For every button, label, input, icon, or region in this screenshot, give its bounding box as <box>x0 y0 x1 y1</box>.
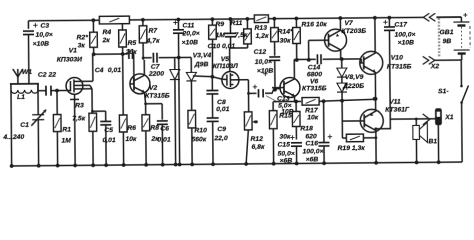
diode V8 <box>340 57 344 61</box>
resistor R7 <box>142 20 144 26</box>
svg-text:×10В: ×10В <box>398 39 415 46</box>
svg-text:1М: 1М <box>61 137 71 144</box>
wire V5 drain <box>233 79 248 81</box>
svg-text:КТ203Б: КТ203Б <box>341 28 366 35</box>
svg-text:КП103Л: КП103Л <box>213 63 238 70</box>
svg-text:×10В: ×10В <box>33 41 50 48</box>
wire V5 source node <box>230 47 248 49</box>
transistor V2 <box>130 74 150 94</box>
svg-text:C2 22: C2 22 <box>38 72 56 79</box>
resistor R5 <box>121 24 123 30</box>
wire V1 drain <box>92 54 94 81</box>
svg-text:R5: R5 <box>128 40 137 47</box>
svg-text:V7: V7 <box>344 20 354 27</box>
connector X2 bottom contact <box>423 56 435 64</box>
svg-text:X1: X1 <box>444 114 454 121</box>
resistor R19 <box>342 137 346 139</box>
svg-text:R3: R3 <box>75 102 84 109</box>
svg-text:R4: R4 <box>102 29 111 36</box>
svg-text:22,0: 22,0 <box>213 135 228 142</box>
wire R16 bottom <box>296 43 298 59</box>
diode V3 <box>177 56 181 60</box>
svg-text:V6: V6 <box>310 78 319 85</box>
svg-text:20,0×: 20,0× <box>181 30 199 37</box>
svg-text:C4: C4 <box>95 67 104 74</box>
svg-text:R11: R11 <box>230 20 242 27</box>
capacitor C3 <box>27 21 29 29</box>
capacitor C7 <box>143 57 151 59</box>
wire V11 base <box>342 120 360 122</box>
resistor R10 <box>188 110 196 128</box>
svg-text:1М: 1М <box>215 32 225 39</box>
wire output to jack <box>390 118 435 120</box>
capacitor C12 <box>269 56 280 58</box>
svg-text:10к: 10к <box>307 114 319 121</box>
wire detector node <box>193 76 222 80</box>
svg-text:Д220Б: Д220Б <box>342 83 364 90</box>
svg-text:3к: 3к <box>78 42 86 49</box>
inductor L1 <box>11 90 38 94</box>
wire L1 left leg <box>10 90 13 166</box>
transistor V6 <box>280 77 300 97</box>
svg-text:C17: C17 <box>394 22 408 29</box>
svg-text:2к: 2к <box>102 37 111 44</box>
svg-text:7,5к: 7,5к <box>72 115 86 122</box>
capacitor C17 <box>388 18 390 27</box>
svg-text:R15: R15 <box>279 113 292 120</box>
capacitor C10 <box>229 19 231 33</box>
svg-text:×10В: ×10В <box>182 39 199 46</box>
svg-text:R7: R7 <box>148 28 158 35</box>
svg-text:0,01: 0,01 <box>216 106 230 113</box>
svg-text:КП303И: КП303И <box>57 56 82 63</box>
capacitor C9 <box>207 117 219 119</box>
svg-text:×6В: ×6В <box>280 158 293 165</box>
svg-text:R10: R10 <box>194 127 207 134</box>
resistor R11 <box>246 19 248 29</box>
svg-text:×6В: ×6В <box>306 156 319 163</box>
wire V7 collector <box>340 50 342 59</box>
capacitor C11 <box>177 20 179 30</box>
svg-text:S1-: S1- <box>438 88 449 95</box>
svg-text:6800: 6800 <box>307 71 322 78</box>
svg-text:V2: V2 <box>149 85 158 92</box>
potentiometer R12 <box>244 112 252 130</box>
diode V9 <box>337 83 347 92</box>
capacitor C5 <box>91 110 94 113</box>
capacitor C8 <box>211 77 213 90</box>
wire V6 collector <box>293 59 295 78</box>
svg-text:7,5к: 7,5к <box>234 32 248 39</box>
resistor R13 <box>254 15 268 23</box>
transistor V10 <box>360 51 383 74</box>
svg-text:КТ315Б: КТ315Б <box>302 85 327 92</box>
wire speaker return <box>376 119 391 129</box>
svg-text:100,0×: 100,0× <box>394 31 415 38</box>
svg-text:Д9В: Д9В <box>194 61 209 68</box>
wire V1 case <box>74 94 76 99</box>
resistor R1 <box>55 89 59 93</box>
svg-text:КТ315Б: КТ315Б <box>145 93 170 100</box>
svg-text:4...240: 4...240 <box>2 134 24 141</box>
svg-text:C6: C6 <box>160 126 169 133</box>
wire output node <box>319 99 374 101</box>
svg-text:30к: 30к <box>279 134 291 141</box>
svg-text:9В: 9В <box>443 38 452 45</box>
svg-text:R2*: R2* <box>76 34 88 41</box>
svg-text:C9: C9 <box>217 126 226 133</box>
capacitor C14 <box>316 54 318 64</box>
svg-text:20к: 20к <box>125 49 138 56</box>
switch S1 <box>460 60 462 86</box>
resistor R3 <box>91 89 93 113</box>
capacitor C6 <box>161 104 163 120</box>
capacitor C2 <box>37 84 39 91</box>
wire ground rail right end <box>461 161 462 163</box>
connector X2 dashed link <box>438 18 441 57</box>
wire V7 emitter <box>339 18 341 30</box>
resistor R16 <box>295 18 297 27</box>
resistor R14 <box>273 19 275 28</box>
svg-text:R8: R8 <box>150 125 159 132</box>
svg-text:GB1: GB1 <box>439 29 453 36</box>
svg-text:×10В: ×10В <box>257 68 274 75</box>
resistor R18 <box>294 100 298 104</box>
wire V6 emitter <box>294 96 296 101</box>
diode V4 <box>175 56 191 58</box>
svg-text:100,0×: 100,0× <box>303 148 324 155</box>
svg-text:6,8к: 6,8к <box>251 144 265 151</box>
svg-text:0,01: 0,01 <box>102 137 116 144</box>
svg-text:10к: 10к <box>125 136 137 143</box>
svg-text:10,0×: 10,0× <box>255 59 272 66</box>
svg-text:B1: B1 <box>428 138 437 145</box>
capacitor C15 <box>291 142 302 144</box>
svg-text:V10: V10 <box>391 55 403 62</box>
capacitor C1 variable <box>37 90 39 115</box>
wire top supply rail <box>28 17 423 20</box>
svg-text:R16 10к: R16 10к <box>301 21 327 28</box>
svg-text:0,01: 0,01 <box>157 137 171 144</box>
antenna W1 <box>17 69 19 84</box>
connector X2 top contact <box>423 13 435 21</box>
svg-text:R6: R6 <box>127 125 136 132</box>
transistor V11 <box>360 109 383 132</box>
svg-text:C8: C8 <box>217 99 226 106</box>
wire V11 emitter <box>375 99 377 112</box>
svg-text:30к: 30к <box>280 38 292 45</box>
resistor R4 <box>99 16 129 24</box>
wire V10 emitter <box>374 72 376 98</box>
resistor R8 <box>145 104 147 115</box>
svg-text:C7: C7 <box>151 64 161 71</box>
svg-text:C12: C12 <box>254 49 267 56</box>
svg-text:R9: R9 <box>215 21 224 28</box>
svg-text:V3,V4: V3,V4 <box>193 52 212 59</box>
connector X1 <box>435 108 442 125</box>
svg-text:R13: R13 <box>254 25 267 32</box>
wire antenna node bar <box>10 83 39 85</box>
svg-text:X2: X2 <box>430 63 440 70</box>
svg-text:R19 1,3к: R19 1,3к <box>337 145 365 152</box>
wire V7 base <box>309 39 325 41</box>
resistor R6 <box>122 54 125 115</box>
svg-text:4,7к: 4,7к <box>146 38 161 45</box>
svg-text:C3: C3 <box>40 23 49 30</box>
svg-text:V8,V9: V8,V9 <box>345 74 364 81</box>
svg-text:10,0×: 10,0× <box>35 32 52 39</box>
svg-text:2200: 2200 <box>148 71 164 78</box>
transistor V5 <box>222 71 239 88</box>
wire bottom ground rail <box>11 162 461 166</box>
resistor R17 <box>302 97 319 105</box>
svg-text:R18: R18 <box>300 125 313 132</box>
svg-text:C1: C1 <box>20 122 29 129</box>
svg-text:C15: C15 <box>277 142 290 149</box>
transistor V7 <box>324 29 346 51</box>
speaker B1 <box>415 119 417 125</box>
capacitor C16 <box>323 101 325 142</box>
capacitor C4 <box>94 53 128 55</box>
transistor V1 <box>66 77 83 94</box>
resistor R9 <box>211 19 213 25</box>
plug arrow <box>423 114 430 125</box>
svg-text:R12: R12 <box>250 136 263 143</box>
wire battery minus <box>435 59 461 61</box>
svg-text:560к: 560к <box>191 136 206 143</box>
svg-text:C16: C16 <box>305 140 318 147</box>
svg-text:КТ361Г: КТ361Г <box>385 106 410 113</box>
svg-text:L1: L1 <box>17 94 25 101</box>
wire V2 collector <box>143 60 145 75</box>
svg-text:R1: R1 <box>62 126 71 133</box>
svg-text:0,01: 0,01 <box>108 67 122 74</box>
resistor R2 <box>92 20 94 32</box>
svg-text:C10 0,01: C10 0,01 <box>208 43 236 50</box>
svg-text:R14*: R14* <box>277 29 293 36</box>
wire V11 collector <box>375 130 377 162</box>
wire V2 emitter <box>145 93 146 104</box>
battery GB1 <box>436 16 461 18</box>
svg-text:C11: C11 <box>182 22 194 29</box>
wire V10 collector <box>374 18 376 54</box>
svg-text:C5: C5 <box>104 127 113 134</box>
svg-text:V5: V5 <box>221 56 230 63</box>
svg-text:V1: V1 <box>69 47 78 54</box>
capacitor C13 <box>249 92 257 94</box>
resistor R15 <box>272 102 274 111</box>
svg-text:1,2к: 1,2к <box>255 33 269 40</box>
svg-text:W1: W1 <box>22 69 32 76</box>
